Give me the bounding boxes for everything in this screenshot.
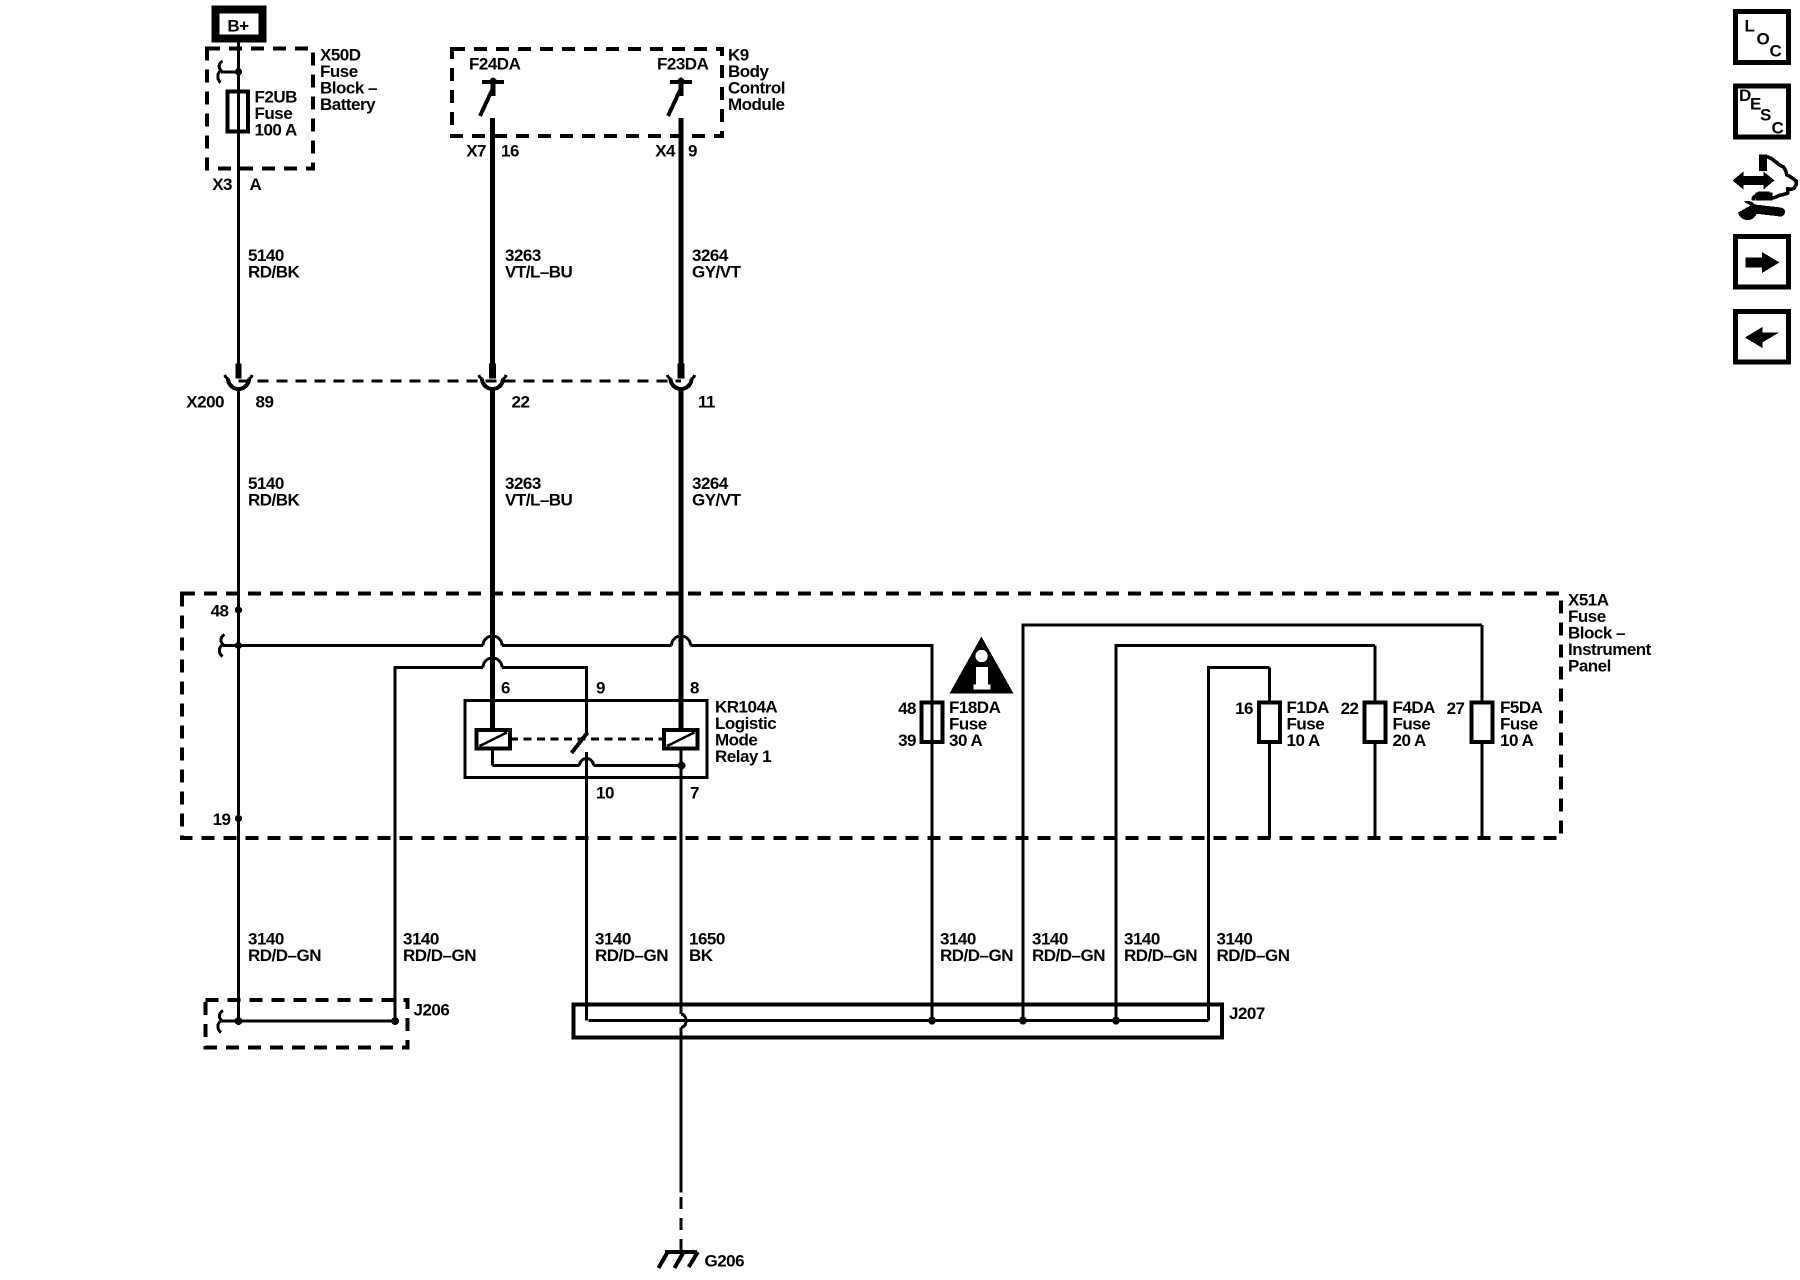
wire label 5140 RD/BK (lower) [248,474,301,510]
svg-text:B+: B+ [227,17,249,36]
node pin 19 of X51A [213,810,243,829]
svg-text:6: 6 [501,679,510,698]
svg-text:10 A: 10 A [1287,731,1321,750]
splice J206 internal bus [218,1011,399,1033]
connector X200 terminal 89 [225,364,252,390]
svg-text:C: C [1772,118,1784,137]
fuse F4DA 20 A [1341,698,1436,838]
fuse F1DA 10 A [1235,698,1329,838]
svg-text:27: 27 [1447,699,1465,718]
svg-text:S: S [1760,105,1771,124]
battery positive terminal B+ [216,10,263,39]
svg-text:RD/BK: RD/BK [248,491,301,510]
svg-text:Battery: Battery [320,95,376,114]
relay internal wire coil to pin 7 (with hop over switch leg) [493,749,686,770]
svg-text:100 A: 100 A [255,121,297,140]
svg-text:20 A: 20 A [1393,731,1427,750]
relay switch blade [572,733,588,754]
wire relay pin 8 to pin 7 leg [680,749,683,839]
svg-text:8: 8 [690,679,699,698]
svg-text:Module: Module [728,95,785,114]
connector pin label X3 A [212,175,261,194]
in-line connector X200 dashed tie line [239,380,682,383]
wire label 3140 RD/D-GN (F4DA rail) [1124,930,1197,966]
fuse F2UB 100 A [228,88,298,140]
svg-text:RD/D–GN: RD/D–GN [940,946,1013,965]
ground G206 [659,1252,745,1271]
information warning triangle [950,637,1014,694]
svg-text:RD/BK: RD/BK [248,263,301,282]
svg-text:22: 22 [1341,699,1359,718]
relay actuating dashed link [510,738,664,741]
label K9 Body Control Module [728,46,785,115]
splice bar J207 outline [574,1005,1223,1038]
label X51A Fuse Block - Instrument Panel [1568,591,1652,676]
feed wire to fuse F5DA (top rail) [1023,624,1482,1021]
svg-text:RD/D–GN: RD/D–GN [1217,946,1290,965]
svg-text:RD/D–GN: RD/D–GN [403,946,476,965]
wire 3263 VT/L-BU (upper) [490,118,495,364]
relay KR104A outline [465,701,707,778]
svg-text:F23DA: F23DA [657,55,709,74]
wire B+ into fuse block (5140 feed) [237,42,240,364]
svg-text:X7: X7 [466,142,486,161]
svg-text:10: 10 [596,784,614,803]
fuse block X51A dashed outline [182,594,1561,839]
label KR104A Logistic Mode Relay 1 [715,698,777,767]
connector pin label X7 16 [466,142,519,161]
svg-text:G206: G206 [705,1252,745,1271]
label X50D Fuse Block - Battery [320,46,377,115]
svg-text:J206: J206 [414,1001,450,1020]
wire label 3140 RD/D-GN (F18DA) [940,930,1013,966]
svg-text:RD/D–GN: RD/D–GN [1124,946,1197,965]
wire label 3140 RD/D-GN (F1DA rail) [1217,930,1290,966]
svg-text:C: C [1770,42,1782,61]
wire label 3140 RD/D-GN (left rail branch) [403,930,476,966]
svg-text:RD/D–GN: RD/D–GN [248,946,321,965]
fuse block X50D dashed outline [207,49,313,169]
svg-text:9: 9 [596,679,605,698]
svg-text:BK: BK [689,946,714,965]
svg-text:16: 16 [501,142,519,161]
wire label 1650 BK [689,930,725,966]
wire 3264 GY/VT (lower) [679,390,684,730]
svg-text:L: L [1745,17,1755,36]
icon back arrow box [1736,312,1789,363]
svg-text:48: 48 [898,699,916,718]
fuse F5DA 10 A [1447,698,1543,838]
fuse F18DA 30 A [898,644,1000,1021]
wire label 3140 RD/D-GN (pin 19 branch) [248,930,321,966]
internal bus wire from pin 48 to fuse F18DA (with crossover hops) [239,636,933,645]
wire label 3264 GY/VT (upper) [692,246,742,282]
wire label 3140 RD/D-GN (F5DA rail) [1032,930,1105,966]
svg-text:X3: X3 [212,175,232,194]
wire 3263 VT/L-BU (lower) [490,390,495,730]
internal wire to relay pin 9 (with crossover hop) [395,658,587,733]
label X200 89 [186,393,273,412]
svg-text:Panel: Panel [1568,657,1611,676]
svg-text:Relay 1: Relay 1 [715,747,771,766]
svg-text:J207: J207 [1229,1004,1265,1023]
svg-text:RD/D–GN: RD/D–GN [595,946,668,965]
wire label 3263 VT/L-BU (lower) [505,474,573,510]
svg-text:O: O [1757,30,1770,49]
icon service tools / double arrow [1733,154,1797,220]
icon forward arrow box [1736,237,1789,288]
svg-text:9: 9 [688,142,697,161]
relay coil suppression element on pin 8-7 leg [664,730,698,749]
splice pack J206 dashed outline [206,1000,408,1048]
svg-text:89: 89 [256,393,274,412]
node pin 48 of X51A [211,602,243,621]
svg-text:VT/L–BU: VT/L–BU [505,263,573,282]
relay coil [477,730,511,749]
svg-text:16: 16 [1235,699,1253,718]
svg-text:GY/VT: GY/VT [692,263,742,282]
wire 1650 BK through J207 to ground (hop around splice bus) [681,838,686,1250]
wire 5140 RD/BK (lower) [237,390,240,1021]
connector X200 terminal 22 [479,364,506,390]
svg-text:48: 48 [211,602,229,621]
wire label 3264 GY/VT (lower) [692,474,742,510]
svg-text:RD/D–GN: RD/D–GN [1032,946,1105,965]
svg-text:X200: X200 [186,393,224,412]
wire label 3140 RD/D-GN (relay pin 10) [595,930,668,966]
svg-text:22: 22 [512,393,530,412]
svg-text:10 A: 10 A [1500,731,1534,750]
connector clip at X50D input [218,61,242,83]
svg-text:F24DA: F24DA [469,55,521,74]
wire label 5140 RD/BK (upper) [248,246,301,282]
wire from bus down to J207 feed (left branch) [394,666,397,1021]
svg-text:30 A: 30 A [949,731,983,750]
icon DESC navigation box [1736,86,1789,138]
wire 3264 GY/VT (upper) [679,118,684,364]
svg-text:GY/VT: GY/VT [692,491,742,510]
body control module K9 dashed outline [452,49,722,136]
connector clip on X51A internal bus [219,635,242,657]
connector pin label X4 9 [655,142,697,161]
svg-text:19: 19 [213,810,231,829]
BCM high-side driver F23DA [657,55,709,117]
splice bar J207 internal bus with junctions [589,1017,1209,1025]
feed wire to fuse F1DA (short rail) [1209,666,1270,1021]
svg-text:VT/L–BU: VT/L–BU [505,491,573,510]
icon LOC navigation box [1736,12,1789,63]
BCM high-side driver F24DA [469,55,521,117]
svg-text:39: 39 [898,731,916,750]
wire 1650 from relay pin 10 down (switch output) [585,752,588,1021]
feed wire to fuse F4DA (middle rail) [1116,644,1375,1021]
connector X200 terminal 11 [667,364,694,390]
svg-text:7: 7 [690,784,699,803]
wire label 3263 VT/L-BU (upper) [505,246,573,282]
svg-text:X4: X4 [655,142,676,161]
svg-text:11: 11 [698,393,715,412]
svg-text:A: A [250,175,262,194]
